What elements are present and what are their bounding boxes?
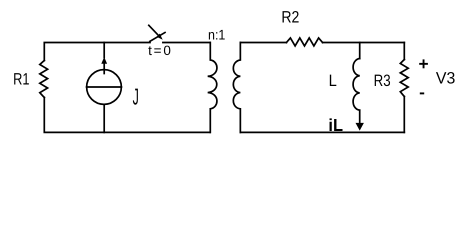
wire: right box top left of R2 [240, 42, 286, 44]
svg-text:R2: R2 [281, 9, 299, 27]
svg-text:J: J [133, 84, 139, 110]
switch blade [150, 33, 165, 42]
resistor R1 [40, 61, 48, 98]
wire: L branch top [359, 43, 361, 59]
wire: J branch top [103, 43, 105, 58]
wire: right box bottom [240, 131, 404, 133]
current source J circle [87, 70, 122, 105]
resistor R2 [286, 38, 322, 46]
svg-text:iL: iL [328, 115, 343, 135]
wire: left box top (left of switch) [44, 43, 150, 61]
svg-text:n:1: n:1 [208, 26, 226, 42]
wire: right edge top [403, 43, 405, 60]
svg-text:t=0: t=0 [148, 43, 173, 58]
transformer primary coil [208, 43, 217, 133]
switch arrow shaft [149, 25, 159, 35]
current source J chord [87, 86, 122, 88]
svg-text:R1: R1 [13, 71, 29, 89]
transformer secondary coil [233, 43, 240, 133]
svg-text:L: L [329, 72, 337, 90]
switch arrowhead [157, 34, 163, 40]
wire: L branch bottom with iL arrow [359, 110, 361, 123]
svg-text:V3: V3 [436, 69, 455, 87]
iL arrowhead [356, 123, 364, 131]
inductor L [353, 59, 360, 111]
wire: left box left lower [44, 98, 210, 133]
wire: J branch bottom [103, 104, 105, 132]
wire: right edge bottom [403, 97, 405, 133]
resistor R3 [400, 60, 408, 97]
label V3 minus [420, 92, 424, 94]
wire: left box top (right of switch) [163, 42, 210, 44]
label V3 plus [419, 59, 428, 68]
current source J arrow [101, 57, 107, 64]
svg-text:R3: R3 [374, 72, 391, 90]
wire: right box top right of R2 [323, 42, 405, 44]
